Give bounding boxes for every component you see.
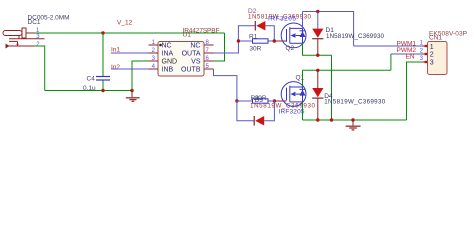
svg-text:3: 3 (430, 60, 434, 67)
svg-text:INB: INB (162, 67, 174, 74)
svg-text:GND: GND (162, 59, 178, 66)
ground symbol left (126, 91, 140, 102)
CN1 pin 3 end tick (425, 61, 427, 63)
op-amp U1 IR4427SPBF body (158, 42, 204, 77)
wire DC1 pin2 to ground rail (35, 46, 45, 91)
wire OUTA to R1 node (214, 41, 239, 53)
wire ground rail left (45, 90, 132, 92)
wire ground rail right (303, 119, 407, 121)
U1 pin 2 stub (149, 52, 159, 54)
junction ground rail/GND symbol (130, 89, 133, 92)
junction C4/ground rail (101, 89, 104, 92)
junction D1 bottom (316, 54, 319, 57)
svg-text:VS: VS (191, 59, 201, 66)
wire R2 to Q1 gate (274, 100, 286, 102)
svg-text:EN: EN (406, 53, 415, 60)
connector DC1 DC005-2.0MM (3, 28, 45, 49)
wire PWM2 (391, 53, 422, 55)
junction ground symbol right (351, 118, 354, 121)
svg-text:OUTA: OUTA (182, 51, 201, 58)
CN1 pin 2 end tick (425, 53, 427, 55)
CN1 pin 1 end tick (425, 45, 427, 47)
svg-text:1N5819W_C369930: 1N5819W_C369930 (324, 98, 386, 105)
resistor R2 (237, 99, 275, 103)
wire D2 left leg (238, 26, 255, 41)
CN1 pin 3 stub (422, 61, 428, 63)
wire C4 top lead (102, 33, 104, 77)
junction D1 top (316, 10, 319, 13)
transistor Q1 (281, 82, 306, 107)
wire D2 right leg (265, 26, 274, 41)
junction R2 left (235, 99, 238, 102)
U1 pin 5 stub (204, 68, 214, 70)
svg-text:U1: U1 (183, 32, 192, 39)
junction R1 left (237, 39, 240, 42)
svg-text:C4: C4 (87, 75, 96, 82)
wire C4 bottom lead (102, 80, 104, 91)
diode D2 (255, 21, 265, 31)
diode D4 (312, 70, 323, 120)
wire In2 (111, 68, 152, 70)
svg-text:IRF3205: IRF3205 (268, 16, 296, 23)
U1 pin 7 stub (204, 52, 214, 54)
wire PWM2 vertical (390, 54, 392, 70)
capacitor C4 (96, 77, 110, 81)
svg-text:1: 1 (430, 44, 434, 51)
U1 pin 1 stub (149, 44, 159, 46)
U1 pin1 dot marker (159, 44, 162, 47)
U1 pin 8 stub (204, 44, 214, 46)
CN1 pin 1 stub (422, 45, 428, 47)
ground symbol right (346, 120, 361, 130)
wire top rail to PWM1 (303, 12, 354, 47)
wire D3 left leg (237, 101, 254, 121)
svg-text:CN1: CN1 (429, 35, 442, 42)
wire Q2 drain up (302, 12, 304, 29)
svg-text:DC1: DC1 (28, 19, 41, 26)
svg-text:OUTB: OUTB (181, 67, 201, 74)
svg-text:NC: NC (162, 43, 172, 50)
junction V12/C4 (101, 31, 104, 34)
resistor R1 (238, 39, 274, 43)
wire EN (407, 62, 423, 120)
connector CN1 EK508V-03P body (428, 42, 448, 75)
wire Q1 source down (302, 102, 304, 120)
svg-text:IRF3205: IRF3205 (279, 109, 305, 116)
junction D4 top (316, 69, 319, 72)
wire U1 GND pin to ground (132, 61, 151, 91)
svg-text:2: 2 (430, 52, 434, 59)
svg-text:Q1: Q1 (296, 75, 305, 82)
wire Q1 drain up (302, 70, 304, 87)
transistor Q2 (281, 23, 306, 48)
svg-text:30R: 30R (249, 46, 261, 53)
wire V12 rail from DC1 pin1 (35, 32, 225, 34)
junction D4 bottom (316, 118, 319, 121)
CN1 pin 2 stub (422, 53, 428, 55)
U1 pin 6 stub (204, 60, 214, 62)
svg-text:R1: R1 (249, 33, 258, 40)
svg-text:In2: In2 (111, 64, 120, 71)
U1 pin 3 stub (149, 60, 159, 62)
junction R1 right (273, 39, 276, 42)
junction Q2 source/ground rail (330, 118, 333, 121)
diode D3 (254, 116, 264, 126)
wire output rail (303, 69, 391, 71)
svg-text:Q2: Q2 (286, 45, 295, 52)
svg-text:1N5819W_C369930: 1N5819W_C369930 (326, 33, 385, 40)
wire V12 down to VS (214, 33, 225, 61)
wire PWM1 (354, 45, 422, 47)
junction R2 right (273, 99, 276, 102)
wire Q2 source to ground rail (331, 55, 333, 120)
diode D1 (312, 12, 323, 56)
svg-text:INA: INA (162, 51, 174, 58)
svg-text:V_12: V_12 (117, 19, 133, 26)
svg-text:NC: NC (190, 43, 200, 50)
wire R1 to Q2 gate (274, 40, 286, 42)
wire OUTB routing (214, 69, 237, 101)
U1 pin 4 stub (149, 68, 159, 70)
svg-text:In1: In1 (111, 47, 120, 54)
wire In1 (111, 52, 152, 54)
wire Q2 source (303, 43, 332, 55)
wire D3 right leg (264, 101, 274, 121)
